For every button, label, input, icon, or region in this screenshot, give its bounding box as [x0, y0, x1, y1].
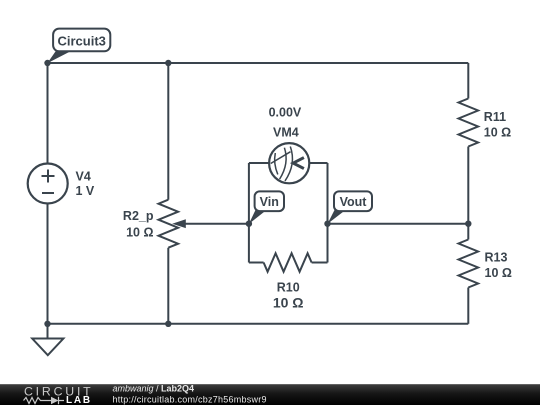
node right-rail junction dot: [465, 221, 471, 227]
wire right rail middle: [467, 147, 469, 240]
flag Vin tail: [249, 210, 267, 224]
wire Vout vertical: [327, 163, 329, 263]
node bottom-middle junction dot: [165, 321, 171, 327]
footer logo diode bar: [46, 397, 64, 405]
wire right rail upper: [467, 63, 469, 99]
voltmeter VM4 circle: [269, 143, 309, 183]
wire left rail lower: [47, 204, 49, 324]
flag Vout tail: [328, 210, 346, 224]
voltmeter VM4 scale arc large: [285, 147, 292, 181]
voltage source V4 minus sign: [42, 192, 54, 194]
voltmeter VM4 needle: [271, 152, 291, 164]
svg-text:R11: R11: [484, 110, 506, 124]
flag Circuit3 box: [53, 29, 110, 52]
ground triangle: [32, 339, 63, 356]
footer logo resistor zigzag: [24, 398, 47, 404]
svg-text:ambwanig / Lab2Q4: ambwanig / Lab2Q4: [113, 384, 195, 394]
wire right rail lower: [467, 288, 469, 324]
svg-text:R13: R13: [485, 251, 508, 265]
svg-text:VM4: VM4: [273, 125, 299, 139]
wire R10 right stub: [312, 262, 328, 264]
wire middle rail upper: [167, 63, 169, 200]
svg-text:R2_p: R2_p: [123, 209, 154, 223]
voltmeter VM4 scale arc small: [275, 153, 278, 174]
svg-text:10 Ω: 10 Ω: [485, 266, 512, 280]
flag Vout box: [334, 191, 372, 211]
node bottom-left junction dot: [44, 321, 50, 327]
flag Vin box: [255, 191, 284, 211]
voltmeter VM4 less-than mark: [293, 158, 304, 169]
voltage source V4 circle: [28, 164, 68, 204]
svg-text:Vout: Vout: [340, 195, 368, 209]
svg-text:0.00V: 0.00V: [269, 105, 302, 119]
voltmeter VM4 scale arc middle: [280, 148, 287, 179]
footer logo diode symbol: [51, 397, 59, 405]
svg-text:Vin: Vin: [260, 195, 279, 209]
svg-text:LAB: LAB: [66, 395, 92, 405]
wire top rail: [48, 62, 469, 64]
wire wiper to Vin node: [183, 223, 249, 225]
wire bottom rail: [48, 323, 469, 325]
svg-text:R10: R10: [277, 281, 300, 295]
svg-text:10 Ω: 10 Ω: [273, 295, 304, 311]
node top-middle junction dot: [165, 60, 171, 66]
wire left rail upper: [47, 63, 49, 164]
svg-text:http://circuitlab.com/cbz7h56m: http://circuitlab.com/cbz7h56mbswr9: [113, 394, 267, 404]
flag Circuit3 tail: [47, 50, 73, 63]
potentiometer R2_p wiper arrowhead: [172, 219, 186, 228]
svg-text:10 Ω: 10 Ω: [126, 225, 153, 239]
wire middle rail lower: [167, 248, 169, 324]
wire Vout to right rail: [328, 223, 469, 225]
footer bar: [0, 384, 540, 405]
potentiometer R2_p zigzag: [159, 200, 179, 248]
resistor R13 zigzag: [459, 240, 479, 288]
wire voltmeter right stub: [309, 162, 327, 164]
svg-text:10 Ω: 10 Ω: [484, 126, 511, 140]
ground stem: [47, 324, 49, 339]
resistor R10 zigzag: [264, 253, 312, 271]
resistor R11 zigzag: [459, 99, 479, 147]
node top-left junction dot: [44, 60, 50, 66]
wire Vin vertical: [248, 163, 250, 263]
svg-text:1 V: 1 V: [76, 184, 95, 198]
node Vin junction dot: [246, 221, 252, 227]
voltage source V4 plus sign: [42, 170, 55, 183]
wire R10 left stub: [249, 262, 264, 264]
wire voltmeter left stub: [249, 162, 269, 164]
svg-text:Circuit3: Circuit3: [57, 34, 105, 49]
node Vout junction dot: [324, 221, 330, 227]
svg-text:V4: V4: [76, 170, 91, 184]
